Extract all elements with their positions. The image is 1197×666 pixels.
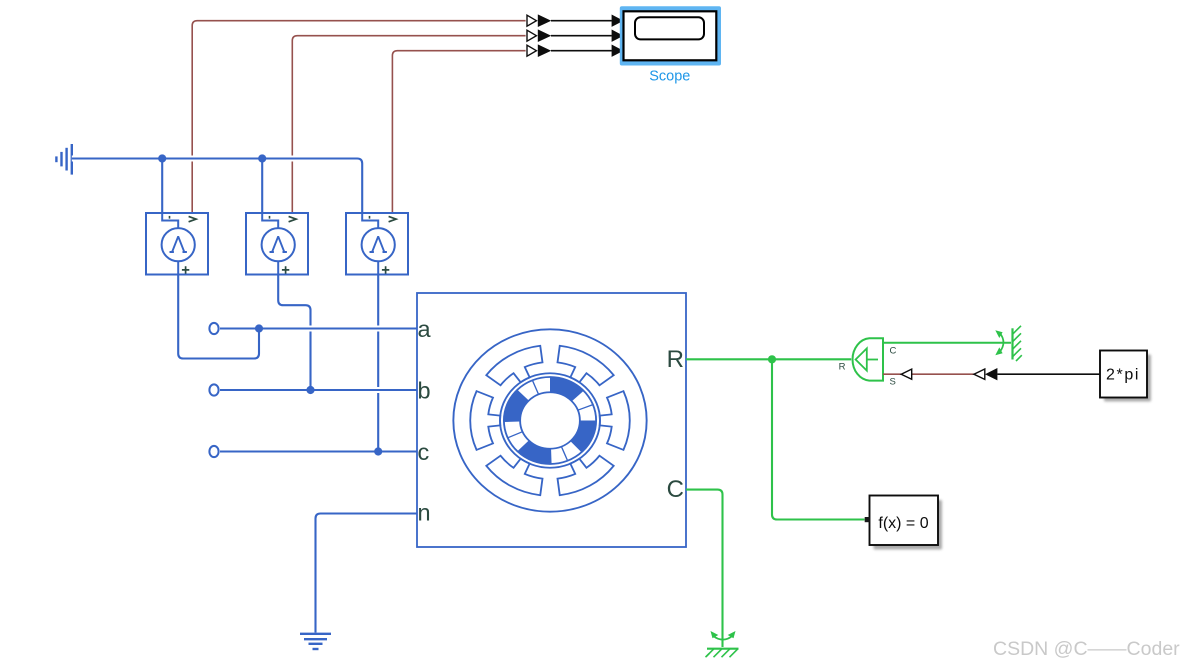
wire velocity source C to rotational reference (green): [883, 342, 1011, 344]
wire PS signal sensor1 to scope (maroon): [192, 21, 525, 213]
junction node a: [255, 324, 263, 332]
wire branch junction to solver: [772, 359, 865, 519]
current sensor I2 internal wire: [262, 213, 278, 228]
open terminal a: [209, 323, 218, 334]
filled arrowhead end of 2*pi signal: [985, 368, 997, 380]
current sensor I1 '+' port label: [182, 266, 189, 273]
motor stator poles: [558, 346, 614, 386]
wire branch to sensor1: [161, 159, 163, 214]
hollow arrowhead at PS line start: [974, 369, 985, 379]
wire sensor2 '+' to node b: [278, 275, 310, 391]
current sensor I3 '>' PS output port label: [389, 216, 397, 221]
current sensor I3 '+' port label: [382, 266, 389, 273]
converter filled arrowhead 3: [538, 44, 551, 57]
motor rotor segment dividers: [578, 405, 593, 411]
motor rotor ring: [504, 377, 596, 464]
wire branch to sensor2: [261, 159, 263, 214]
svg-text:b: b: [418, 377, 431, 403]
current sensor I2 bottom wire inside: [277, 261, 279, 274]
solver configuration block f(x)=0: [865, 496, 942, 550]
PS line end hollow arrowhead 3: [527, 45, 536, 56]
signal line 1 into Scope (black): [551, 20, 612, 22]
svg-text:C: C: [667, 476, 684, 503]
signal line 3 into Scope (black): [551, 50, 612, 52]
current sensor I1 internal wire: [162, 213, 178, 228]
junction on bus at sensor2: [258, 154, 266, 162]
wire motor n to ground: [316, 514, 418, 633]
svg-text:n: n: [418, 500, 431, 526]
current sensor I1 '>' PS output port label: [189, 216, 197, 221]
wire sensor1 '+' to node a: [178, 275, 259, 359]
current sensor I2 '+' port label: [282, 266, 289, 273]
current sensor I2 '-' port tick: [269, 216, 271, 219]
electrical ground (bottom): [300, 634, 331, 649]
svg-text:Scope: Scope: [649, 69, 690, 85]
constant block 2*pi: [1100, 351, 1151, 402]
current sensor I2 '>' PS output port label: [289, 216, 297, 221]
ideal angular velocity source: [839, 338, 897, 387]
PS line end hollow arrowhead 2: [527, 30, 536, 41]
junction node b: [306, 386, 314, 394]
junction on bus at sensor1: [158, 154, 166, 162]
wire phase c to motor: [220, 449, 417, 455]
wire phase a to motor: [220, 326, 417, 332]
current sensor I3 bottom wire inside: [377, 261, 379, 274]
Scope block body: [624, 11, 717, 60]
svg-text:R: R: [667, 346, 684, 373]
hollow arrowhead at S port: [901, 369, 912, 379]
svg-text:c: c: [418, 439, 430, 465]
motor rotor filled segments: [550, 377, 584, 401]
svg-text:CSDN @C——Coder: CSDN @C——Coder: [993, 638, 1180, 660]
current sensor I1 circle with lambda: [162, 228, 195, 261]
wire bus from electrical reference to sensors (blue, white casing over maroon): [72, 159, 362, 214]
electrical reference (left ground): [56, 144, 71, 175]
motor outer circle: [453, 329, 646, 511]
Scope input arrowhead 3: [612, 45, 624, 57]
signal line 2 into Scope (black): [551, 35, 612, 37]
motor stator inner boundary circle: [500, 373, 600, 467]
Scope block selection halo: [620, 6, 721, 65]
junction on R wire: [768, 355, 776, 363]
wire phase b to motor: [220, 387, 417, 393]
svg-text:S: S: [890, 377, 896, 388]
mechanical rotational reference (bottom): [706, 631, 739, 657]
mechanical rotational reference (top right): [995, 326, 1022, 361]
current sensor I3 '-' port tick: [369, 216, 371, 219]
Scope screen rounded rect: [635, 17, 704, 39]
SRM motor block: [417, 293, 686, 547]
converter filled arrowhead 2: [538, 29, 551, 42]
open terminal c: [209, 446, 218, 457]
wire PS signal sensor3 to scope (maroon): [392, 51, 525, 213]
svg-text:f(x) = 0: f(x) = 0: [878, 515, 928, 532]
current sensor I1 bottom wire inside: [177, 261, 179, 274]
svg-text:R: R: [839, 362, 846, 373]
Scope input arrowhead 1: [612, 15, 624, 27]
current sensor I2 circle with lambda: [262, 228, 295, 261]
open terminal b: [209, 384, 218, 395]
svg-text:a: a: [418, 316, 432, 342]
wire motor C to rotational reference (green): [686, 490, 723, 647]
current sensor I3 circle with lambda: [362, 228, 395, 261]
PS line end hollow arrowhead 1: [527, 15, 536, 26]
wire PS signal sensor2 to scope (maroon): [292, 36, 525, 213]
current sensor I3 internal wire: [362, 213, 378, 228]
Scope input arrowhead 2: [612, 30, 624, 42]
current sensor I1: [146, 213, 208, 275]
maroon PS wire into S port: [883, 373, 901, 375]
wire sensor3 '+' to node c: [377, 275, 379, 452]
wire 2*pi output (black): [997, 373, 1100, 375]
current sensor I2: [246, 213, 308, 275]
current sensor I1 '-' port tick: [169, 216, 171, 219]
svg-text:C: C: [890, 346, 897, 357]
svg-text:2*pi: 2*pi: [1106, 367, 1140, 384]
wire motor R to velocity source (green): [686, 358, 851, 360]
converter filled arrowhead 1: [538, 14, 551, 27]
junction node c: [374, 447, 382, 455]
current sensor I3: [346, 213, 408, 275]
